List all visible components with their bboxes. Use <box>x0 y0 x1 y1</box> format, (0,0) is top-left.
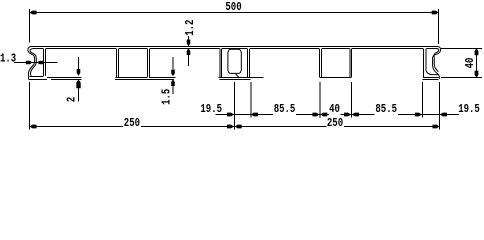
svg-text:85.5: 85.5 <box>274 103 296 117</box>
svg-text:250: 250 <box>124 117 140 131</box>
svg-text:2: 2 <box>65 97 79 102</box>
svg-text:85.5: 85.5 <box>375 103 397 117</box>
svg-text:19.5: 19.5 <box>200 103 222 117</box>
svg-text:250: 250 <box>327 117 343 131</box>
svg-text:1.2: 1.2 <box>184 20 198 36</box>
svg-text:1.5: 1.5 <box>161 89 175 105</box>
svg-text:40: 40 <box>329 103 340 117</box>
svg-text:40: 40 <box>464 58 478 69</box>
svg-text:19.5: 19.5 <box>458 103 480 117</box>
svg-text:1.3: 1.3 <box>0 52 16 66</box>
svg-text:500: 500 <box>225 1 241 15</box>
